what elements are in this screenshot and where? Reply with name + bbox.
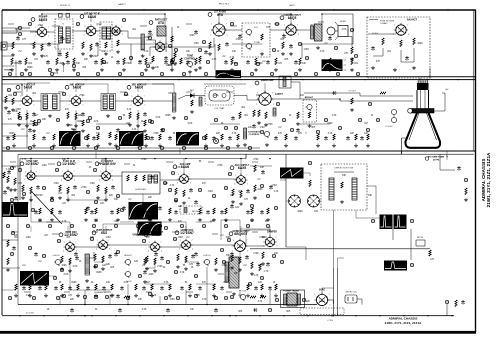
row1 long horizontal ties [2,43,34,45]
svg-text:4.7K: 4.7K [42,282,47,284]
node T2 [28,22,31,25]
tube HORIZ CONT 6AL5 [144,233,148,237]
node [166,260,169,263]
resistor [109,132,111,138]
capacitor [32,112,36,117]
wire [368,33,396,35]
peaking coil box [279,76,291,88]
svg-text:270K: 270K [217,165,223,167]
waveform photo W12 [20,271,49,286]
wire [2,84,22,96]
node [56,118,59,121]
svg-text:270K: 270K [253,159,259,161]
wire [120,43,168,45]
ground [85,279,89,283]
wire - horizontal bus y=249 [250,248,430,250]
svg-text:100K: 100K [297,211,303,213]
left edge row2 cluster [5,96,7,103]
ground [52,144,56,148]
node [366,128,369,131]
svg-text:33K: 33K [66,133,71,135]
capacitor [16,36,20,41]
coil L1 quad coil [141,34,144,50]
tube V1 RF amp 6AG5 [31,18,35,22]
wire [2,239,18,241]
ground [128,123,132,127]
resistor R25 [258,110,260,117]
ground [9,188,13,192]
resistor [7,240,9,247]
node [150,120,153,123]
wire [2,165,20,167]
node T5 [148,36,151,39]
capacitor [228,136,232,141]
ground [93,265,97,269]
node [94,264,97,267]
node [26,224,29,227]
node [28,72,31,75]
resistor [12,42,14,49]
wires to picture tube grid/cathode [300,98,340,100]
potentiometer R9 [186,61,193,68]
ground [266,218,270,222]
ground [158,144,162,148]
capacitor [246,60,250,65]
resistor [251,208,253,214]
svg-text:6.8K: 6.8K [94,121,99,123]
node [198,188,201,191]
wire [166,161,173,163]
capacitor [160,128,164,133]
tube SYNC CLIP 1/2 6SN7 [57,162,61,166]
wire [90,252,95,258]
wire - feed to CRT from flyback area [410,229,412,240]
potentiometer h-hold [203,259,210,266]
svg-text:22K: 22K [216,133,221,135]
capacitor [144,210,148,215]
capacitor [66,60,70,65]
resistor [111,284,113,290]
resistor [51,208,53,214]
svg-text:6.8K: 6.8K [73,266,78,268]
capacitor [164,60,168,65]
capacitor [54,286,58,291]
resistor [15,284,17,290]
resistor R26 [265,112,267,119]
svg-text:PHASE INV: PHASE INV [98,162,117,166]
node [268,308,271,311]
capacitor [34,210,38,215]
transformer T1 sound IF (dashed can) [55,19,73,49]
scale marks [344,59,347,61]
svg-text:3.3K: 3.3K [258,301,263,303]
node [204,146,207,149]
svg-text:820K: 820K [9,133,15,135]
node [274,206,277,209]
svg-text:.001: .001 [310,25,315,27]
svg-text:22K: 22K [78,115,83,117]
ground [32,52,36,56]
wire - sound/video section divider (double) [2,76,476,78]
ground [230,266,234,270]
ground [55,68,59,72]
resistor [260,296,266,298]
svg-text:1/2 6SN7: 1/2 6SN7 [180,231,194,235]
node [105,295,108,298]
wire [10,161,16,163]
ground [212,218,216,222]
wire [14,91,21,93]
wire [179,148,181,154]
node [294,72,297,75]
node [173,237,176,240]
node [368,102,371,105]
node [42,186,45,189]
capacitor [294,60,298,65]
waveform photo W11 [384,261,407,271]
node [83,295,86,298]
potentiometer R14 [245,43,252,50]
ground [44,294,48,298]
svg-text:10K: 10K [190,309,195,311]
svg-text:100K: 100K [123,95,129,97]
ground [224,218,228,222]
resistor R31 [380,92,386,94]
ground [260,294,264,298]
capacitor [72,128,76,133]
wire [124,163,130,165]
ground [60,294,64,298]
capacitor C4 [164,56,168,61]
wire [30,43,60,45]
ground [188,294,192,298]
svg-text:6.8K: 6.8K [342,29,347,31]
wire [95,152,97,159]
wire [52,233,59,235]
wire [2,135,28,137]
wire - B+ distribution bus [2,315,454,317]
wire [300,43,353,45]
node [10,252,13,255]
node [227,238,230,241]
ground [144,68,148,72]
svg-text:MODEL 21: MODEL 21 [60,5,71,7]
capacitor [90,210,94,215]
resistor [61,256,63,263]
svg-text:100K: 100K [417,43,423,45]
svg-text:1.5M: 1.5M [89,183,94,185]
ground [182,201,186,205]
node [214,118,217,121]
resistor R11 [209,42,211,49]
capacitor [36,185,40,190]
ground [68,269,72,273]
capacitor [116,60,120,65]
node [226,72,229,75]
node [176,296,179,299]
svg-text:3.3K: 3.3K [332,115,337,117]
waveform photo W4 [119,131,144,146]
node [18,32,21,35]
resistor [137,113,139,120]
resistor [3,172,5,178]
capacitor [269,185,273,190]
svg-text:21YP4: 21YP4 [433,158,440,161]
wire - vertical drops to B+ bus [30,226,32,232]
resistor [285,134,287,140]
ion trap dashed box [205,86,234,105]
svg-text:CONTRAST: CONTRAST [248,131,261,134]
resistor [232,189,234,196]
capacitor [252,124,256,129]
wire [2,123,40,125]
resistor [135,175,137,181]
extra band crossing verticals [214,44,216,70]
wire [212,233,218,235]
ground [328,68,332,72]
potentiometer v-lin [124,271,131,278]
node [220,248,223,251]
capacitor [198,286,202,291]
resistor R5 [90,44,92,51]
capacitor [266,262,270,267]
winding [225,262,228,282]
resistor [351,58,353,65]
svg-text:47K: 47K [178,221,183,223]
capacitor [194,200,198,205]
ground [204,144,208,148]
ground [50,218,54,222]
resistor [169,208,171,214]
capacitor [86,286,90,291]
resistor R28 [308,112,310,118]
svg-text:6.8K: 6.8K [188,123,193,125]
svg-text:10K: 10K [260,167,265,169]
band mesh wires [2,27,16,29]
node [230,295,233,298]
svg-text:10K: 10K [138,299,143,301]
ground [32,129,36,133]
svg-text:3.3K: 3.3K [212,59,217,61]
capacitor C5 [225,42,229,47]
width coil dashed box [180,206,202,214]
svg-text:3.3K: 3.3K [152,295,157,297]
svg-text:1.5M: 1.5M [53,183,58,185]
ground [104,52,108,56]
wire - right edge bus [475,10,477,332]
node [86,190,89,193]
capacitor [224,60,228,65]
resistor [309,180,311,187]
capacitor [150,136,154,141]
svg-text:1.5M: 1.5M [41,165,46,167]
svg-text:SAFETY: SAFETY [118,3,126,6]
svg-text:.005: .005 [238,311,243,313]
ground [188,70,192,74]
node [129,56,132,59]
node [62,294,65,297]
wire - sync band second bus [18,153,474,155]
node [280,260,283,263]
resistor [61,284,63,290]
svg-text:3.3K: 3.3K [254,275,259,277]
ground [281,52,285,56]
capacitor C3 [95,42,99,47]
capacitor [114,252,118,257]
ground [106,114,110,118]
resistor [213,208,215,214]
node [142,239,145,242]
ground [116,218,120,222]
resistor [82,120,84,126]
wire [373,48,383,56]
ground [170,68,174,72]
ground [274,68,278,72]
capacitor [143,270,147,275]
svg-text:6AU6: 6AU6 [73,86,82,90]
svg-text:270K: 270K [67,125,73,127]
capacitor [212,136,216,141]
capacitor [160,286,164,291]
junction dots on buses [41,13,43,15]
node [32,296,35,299]
capacitor [73,185,77,190]
node [164,226,167,229]
svg-text:WIDTH: WIDTH [192,211,199,213]
ground [116,50,120,54]
node [10,166,13,169]
vert output transformer [85,254,90,275]
node [260,184,263,187]
node [266,224,269,227]
svg-text:10K: 10K [302,63,307,65]
node [37,119,40,122]
waveform photo W3 [59,131,81,146]
capacitor [220,210,224,215]
wire [230,25,237,27]
svg-text:B+ 135V: B+ 135V [26,313,34,315]
resistor [247,284,249,290]
node [202,224,205,227]
svg-text:RECT. HI-V: RECT. HI-V [219,4,230,6]
svg-text:CONTROL: CONTROL [249,134,260,136]
capacitor [245,255,249,260]
capacitor [143,112,147,117]
node [410,219,413,222]
resistor [73,58,75,65]
ground [74,124,78,128]
svg-text:.047: .047 [332,63,337,65]
svg-text:.047: .047 [34,115,39,117]
svg-text:6AU6: 6AU6 [88,15,97,19]
svg-text:INTERLOCK: INTERLOCK [345,292,357,294]
svg-text:1/2 6SN7: 1/2 6SN7 [62,162,76,166]
svg-text:3.3K: 3.3K [328,133,333,135]
ground [260,52,264,56]
svg-text:100K: 100K [61,265,67,267]
capacitor [246,210,250,215]
node [371,219,374,222]
picture tube neck [417,90,429,113]
node [160,146,163,149]
capacitor [75,256,79,261]
svg-text:3.3K: 3.3K [127,109,132,111]
resistor R15 [261,34,263,40]
ground [354,144,358,148]
ground [66,123,70,127]
wire [12,231,18,233]
potentiometer R27 [305,104,312,111]
svg-text:3.3K: 3.3K [202,299,207,301]
svg-text:22K: 22K [148,197,153,199]
resistor [171,58,173,65]
wire [2,289,16,291]
resistor [317,134,319,140]
svg-text:6.8K: 6.8K [104,63,109,65]
svg-text:3.3K: 3.3K [164,282,169,284]
svg-text:.047: .047 [58,193,63,195]
ground [48,114,52,118]
capacitor [116,128,120,133]
capacitor [189,188,193,193]
svg-text:.001: .001 [354,63,359,65]
capacitor [338,60,342,65]
resistor [67,187,69,194]
svg-text:3.3K: 3.3K [176,167,181,169]
ground [350,108,354,112]
tube (2) 6SN7GT PHASE INV [95,162,99,166]
node [120,208,123,211]
capacitor C9 [231,116,235,121]
svg-text:6AQ5: 6AQ5 [289,4,295,7]
wire - row3/4 links [31,196,70,234]
wire [132,233,138,235]
ground [316,144,320,148]
svg-text:10K: 10K [148,63,153,65]
ground [84,218,88,222]
wire [109,296,111,305]
capacitor [150,175,154,180]
svg-text:22K: 22K [350,133,355,135]
ground [168,294,172,298]
wire - top border bus [2,9,476,11]
wire [2,267,20,269]
node [148,292,151,295]
width/linearity cluster [416,240,425,246]
svg-text:4.7K: 4.7K [22,159,27,161]
node [194,274,197,277]
node [234,62,237,65]
node T6 [174,48,177,51]
node [148,119,151,122]
node [70,224,73,227]
winding [102,27,106,39]
svg-text:6.8K: 6.8K [124,282,129,284]
wire [186,23,192,25]
node [339,98,341,100]
resistor [199,208,201,214]
svg-text:ION TRAP: ION TRAP [215,107,225,110]
svg-text:1.5M: 1.5M [207,191,212,193]
resistor [7,258,9,265]
svg-text:V HOLD: V HOLD [52,255,60,257]
capacitor [194,252,198,257]
node [124,92,127,95]
ground [94,294,98,298]
svg-text:820K: 820K [71,282,77,284]
svg-text:10K: 10K [155,67,160,69]
ground [151,66,155,70]
